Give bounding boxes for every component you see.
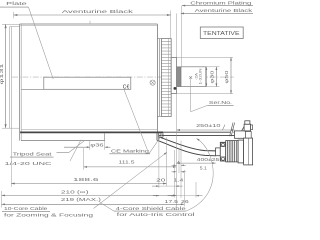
svg-text:5.1: 5.1 [200,166,208,171]
svg-text:TENTATIVE: TENTATIVE [203,31,240,37]
svg-text:1-32UN: 1-32UN [199,68,203,85]
svg-text:4-Core Shield Cable: 4-Core Shield Cable [116,206,187,211]
svg-text:Plate: Plate [6,1,28,6]
svg-text:219 (MAX.): 219 (MAX.) [61,197,102,202]
svg-text:Aventurine Black: Aventurine Black [195,8,253,13]
svg-text:111.5: 111.5 [119,159,136,164]
svg-text:for Auto-Iris Control: for Auto-Iris Control [117,212,195,217]
svg-text:Aventurine Black: Aventurine Black [62,9,135,14]
svg-text:Ser.No.: Ser.No. [209,100,232,105]
svg-text:Chromium Plating: Chromium Plating [190,0,252,5]
svg-text:-2A: -2A [195,72,199,80]
svg-text:φ50: φ50 [224,70,229,84]
svg-text:250±10: 250±10 [196,123,221,128]
svg-text:10-Core Cable: 10-Core Cable [4,206,48,211]
svg-text:φ30: φ30 [210,70,215,84]
svg-text:26: 26 [181,199,189,204]
svg-text:Tripod Seat: Tripod Seat [13,152,53,157]
svg-text:for Zooming & Focusing: for Zooming & Focusing [4,213,94,218]
svg-text:φ36: φ36 [90,143,104,148]
svg-text:400±25: 400±25 [197,157,220,162]
svg-text:20: 20 [156,177,166,182]
svg-text:CE Marking: CE Marking [111,149,150,154]
svg-text:1.4: 1.4 [174,177,184,182]
svg-text:φ131: φ131 [0,62,4,84]
svg-text:210 (∞): 210 (∞) [61,189,89,194]
svg-text:188.6: 188.6 [73,177,99,182]
svg-text:1/4-20 UNC: 1/4-20 UNC [5,161,52,166]
svg-text:17.5: 17.5 [165,199,179,204]
